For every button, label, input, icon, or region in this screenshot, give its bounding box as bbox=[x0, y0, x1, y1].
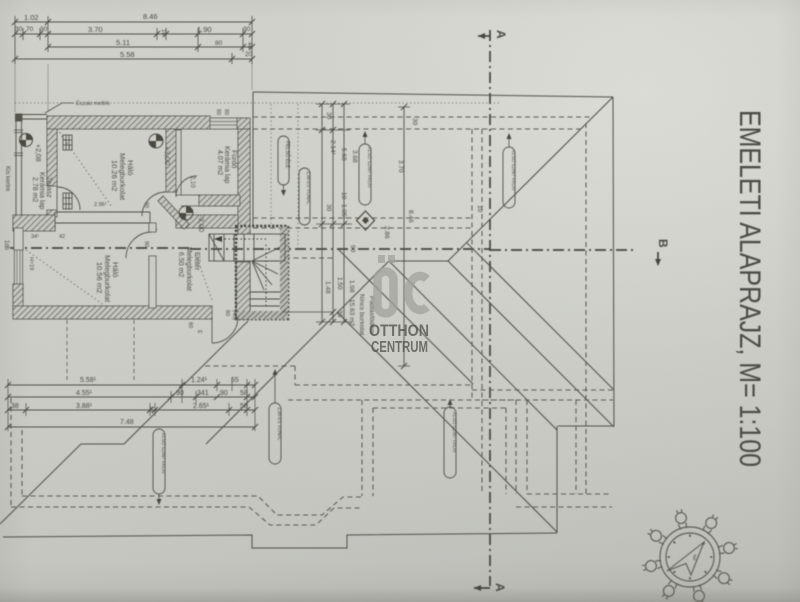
short dashed right of stairs bbox=[285, 257, 335, 259]
top wall of Halo1 and Furdo bbox=[47, 116, 210, 129]
dotted ceiling-slope diagonals in rooms bbox=[26, 129, 212, 308]
terasz corner post bbox=[16, 114, 23, 121]
middle wall between Halo1 and Halo2 bbox=[13, 215, 55, 231]
hip Da bbox=[0, 444, 81, 524]
top dimension chain row 1 bbox=[12, 16, 255, 112]
hip B: ridge to bottom-right step corner bbox=[448, 261, 614, 427]
room label Halo1 bbox=[110, 153, 135, 201]
ridge bbox=[389, 260, 448, 262]
pill FELSO ELE bbox=[278, 136, 291, 196]
roof right edge bbox=[613, 97, 614, 426]
1.90 contour left bbox=[205, 365, 295, 367]
leader line for annotation bbox=[45, 103, 74, 113]
watermark letter C bbox=[408, 276, 427, 310]
Halo2 left wall top part bbox=[14, 228, 23, 250]
pill ALSO SZINT FALAI lower bbox=[444, 399, 458, 478]
dashed pair y=494/507 bottom right bbox=[527, 493, 612, 495]
risers upper flight bbox=[214, 234, 254, 261]
step: vertical at x=557 bbox=[556, 426, 558, 533]
elevation marker symbol S3 (Eloter) bbox=[179, 206, 193, 220]
watermark letter O body bbox=[378, 272, 394, 314]
Halo1 left wall bbox=[47, 129, 57, 186]
bottom-left eave dashed inner bbox=[11, 507, 362, 525]
terasz railing top bbox=[16, 115, 47, 120]
bottom outer wall bbox=[13, 306, 212, 319]
step: horizontal at y=426 bbox=[558, 425, 614, 427]
roof left edge bbox=[252, 92, 254, 225]
stair enclosure heavy border bbox=[236, 226, 288, 319]
room label Furdo bbox=[216, 146, 237, 183]
section line B-B (horizontal dash-dot) bbox=[10, 248, 661, 266]
terasz bottom corner block bbox=[15, 217, 27, 228]
room label Halo2 bbox=[95, 255, 120, 303]
radiator 2 bbox=[63, 193, 72, 209]
Halo1 right wall bbox=[166, 129, 176, 192]
pill ALSO SZINT FALAI left-lower bbox=[153, 429, 167, 505]
stair left wall bbox=[236, 262, 250, 317]
bottom dimension labels bbox=[11, 377, 248, 426]
dashed pair y=390/400 right wing bbox=[472, 389, 613, 391]
dashed vertical pair x=516/527 bbox=[515, 400, 517, 494]
Halo2 left wall bottom part bbox=[13, 284, 23, 308]
diagonal chamfer wall at Eloter bbox=[158, 196, 189, 229]
dashed horizontal pair y=218/228 bbox=[253, 217, 472, 219]
Furdo left partition (thin) bbox=[176, 130, 181, 195]
terasz railing left (double line) bbox=[16, 115, 22, 217]
dashed eave top pair bbox=[253, 116, 590, 118]
window 80/80 in top wall bbox=[210, 118, 237, 129]
Halo2 window in left wall bbox=[15, 250, 23, 284]
dashed vertical x=586 bbox=[585, 123, 587, 494]
dotted vertical x=271 bbox=[270, 104, 272, 224]
bottom-left eave dashed outer bbox=[22, 496, 362, 515]
hip C: ridge-left down-right bbox=[389, 261, 557, 430]
left verticals bbox=[10, 398, 12, 507]
attic label Padlasfodem bbox=[348, 294, 375, 335]
inner ring tick dots bbox=[668, 535, 713, 580]
door Halo2 top right bbox=[126, 232, 152, 258]
radiator 1 bbox=[63, 135, 72, 150]
room label Terasz bbox=[31, 172, 52, 209]
extension lines below plan bbox=[66, 320, 68, 382]
hip A: top-right corner to ridge bbox=[448, 97, 613, 261]
tiny dims inside plan bbox=[28, 109, 237, 334]
hip D1: ridge-left down-left bbox=[206, 261, 389, 444]
terasz railing supports bbox=[14, 130, 23, 156]
door Halo1 right wall bbox=[142, 192, 166, 216]
hip Db bbox=[124, 321, 248, 444]
upper flight box bbox=[209, 234, 285, 261]
room label Eloter bbox=[177, 247, 200, 291]
pill ALSO SZINT FALAI right bbox=[503, 133, 517, 208]
landing diagonal bbox=[209, 234, 224, 261]
lower flight treads bbox=[250, 292, 280, 306]
door Furdo bbox=[176, 176, 197, 197]
dotted vertical x=298 bbox=[297, 104, 299, 250]
hip H3 bbox=[467, 243, 613, 389]
Halo2 right partition (thin) bbox=[149, 223, 156, 232]
valley V1 bbox=[338, 249, 473, 384]
elevation marker symbol S2 (Halo1) bbox=[149, 134, 163, 148]
dimension labels top bbox=[15, 12, 253, 59]
door terasz->Halo1 bbox=[57, 187, 80, 210]
terasz bottom door threshold lines bbox=[27, 218, 47, 224]
pill 1.90-ES VONAL lower bbox=[269, 369, 282, 464]
roof top edge bbox=[253, 92, 613, 97]
Furdo bottom wall bbox=[199, 195, 240, 206]
valley V2 bbox=[337, 312, 557, 532]
pill ALSO SZINT FALAI upper bbox=[359, 131, 373, 205]
section line A-A (vertical dash-dot) bbox=[474, 30, 490, 591]
roof overhang dotted line (top) bbox=[15, 102, 500, 104]
elevation marker symbol S1 (terasz) bbox=[20, 134, 33, 147]
left edge tiny text bbox=[3, 166, 10, 251]
right chain labels (rotated) bbox=[324, 112, 483, 318]
porch right inner bbox=[505, 408, 507, 494]
porch top pair bbox=[288, 399, 516, 401]
mini ridge bottom-left bbox=[81, 443, 124, 445]
porch left wall pair bbox=[361, 400, 363, 496]
dashed vertical wall pair x=472/482 bbox=[471, 129, 473, 399]
diamond flue symbol bbox=[357, 211, 375, 230]
entrance door arc (below bottom wall) bbox=[212, 317, 238, 343]
north arrow dart bbox=[667, 542, 704, 575]
walking line dotted with arrow bbox=[214, 239, 266, 306]
bottom eave edge with notch bbox=[3, 533, 557, 548]
right outer wall full height bbox=[238, 129, 250, 234]
winder steps fan bbox=[252, 247, 280, 290]
pill 1.90-ES VONAL upper bbox=[299, 168, 311, 225]
watermark letter O umlaut dots bbox=[378, 255, 385, 263]
